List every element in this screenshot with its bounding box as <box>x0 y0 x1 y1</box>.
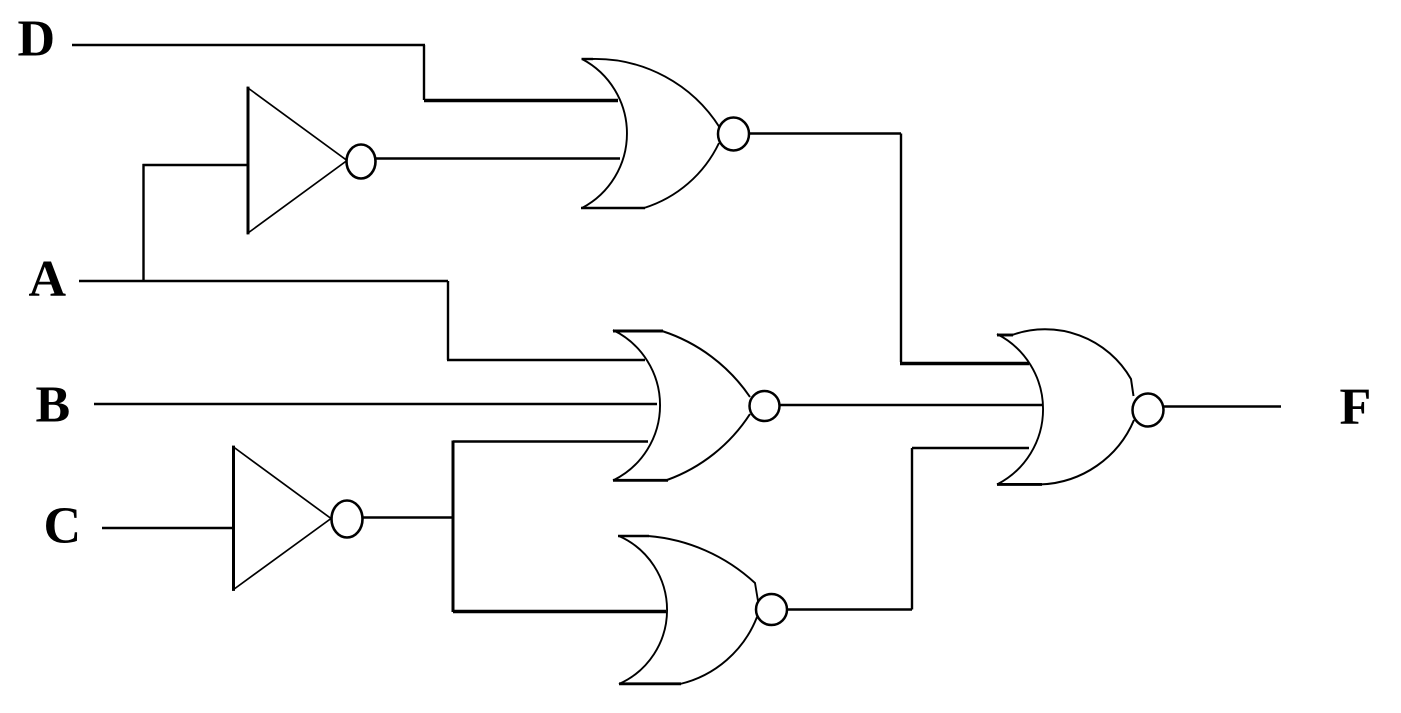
wire G1 output into NOR G4 top input <box>900 362 1029 365</box>
NOR gate G4 bottom edge arc <box>1041 420 1134 484</box>
NOR gate G4 top edge nub <box>997 334 1013 337</box>
svg-text:D: D <box>18 11 56 68</box>
NOR gate G2 input edge arc <box>613 330 660 481</box>
wire A step down <box>447 281 449 360</box>
wire G3 output <box>787 608 912 610</box>
NOR gate G2 bottom edge nub <box>613 479 668 482</box>
NOR gate G4 top edge arc <box>1012 329 1134 396</box>
wire G1 output <box>750 132 901 134</box>
NOR gate G4 bubble <box>1133 394 1164 427</box>
wire A horizontal <box>79 280 448 282</box>
NOR gate G3 bottom edge arc <box>680 617 757 684</box>
wire G3 output vertical up <box>911 448 913 610</box>
NOR gate G4 bottom edge nub <box>997 483 1042 486</box>
NOR gate G1 bottom edge nub <box>581 207 645 210</box>
NOR gate G4 input edge arc <box>997 334 1043 485</box>
inverter U2 triangle <box>234 447 332 590</box>
inverter U2 bubble <box>332 501 363 538</box>
wire F output <box>1164 405 1281 407</box>
NOR gate G3 top edge arc <box>648 536 758 601</box>
NOR gate G3 bottom edge nub <box>619 682 681 685</box>
wire A into NOR G2 top input <box>447 359 645 361</box>
wire branch into NOR G3 input <box>453 610 666 613</box>
wire G3 output into NOR G4 bottom input <box>912 447 1029 449</box>
wire G2 output into NOR G4 middle input <box>780 404 1043 406</box>
NOR gate G2 top edge arc <box>662 331 750 397</box>
wire branch into NOR G2 bottom input <box>453 440 648 442</box>
svg-text:C: C <box>44 498 82 555</box>
svg-text:F: F <box>1340 379 1372 436</box>
inverter U1 triangle <box>248 88 347 233</box>
NOR gate G2 bubble <box>750 391 780 421</box>
NOR gate G3 top edge nub <box>618 535 649 537</box>
inverter U1 bubble <box>347 145 376 179</box>
wire U1 output to NOR G1 lower input <box>370 157 620 159</box>
NOR gate G1 top edge arc <box>592 59 720 128</box>
svg-text:B: B <box>36 377 71 434</box>
wire U2 output to branch node <box>356 516 453 518</box>
NOR gate G1 input edge arc <box>582 59 627 208</box>
NOR gate G1 bottom edge arc <box>644 143 719 208</box>
NOR gate G2 top edge nub <box>613 330 663 333</box>
NOR gate G3 input edge arc <box>619 536 667 684</box>
wire branch vertical node C' <box>452 441 455 613</box>
wire C into inverter U2 <box>102 527 233 529</box>
wire B into NOR G2 middle input <box>94 403 657 405</box>
wire A branch into inverter U1 input <box>143 164 249 166</box>
NOR gate G1 bubble <box>718 118 749 151</box>
NOR gate G3 bubble <box>756 594 787 625</box>
NOR gate G2 bottom edge arc <box>667 414 750 480</box>
inverter U2 input edge <box>232 446 235 591</box>
wire D into NOR G1 top input <box>424 99 618 102</box>
wire A branch vertical to inverter U1 <box>142 164 144 281</box>
svg-text:A: A <box>29 251 67 308</box>
inverter U1 input edge <box>247 87 250 235</box>
wire D horizontal <box>72 44 425 46</box>
NOR gate G1 top edge nub <box>582 58 594 60</box>
wire G1 output vertical down <box>900 134 902 363</box>
wire D vertical step down <box>423 45 425 100</box>
